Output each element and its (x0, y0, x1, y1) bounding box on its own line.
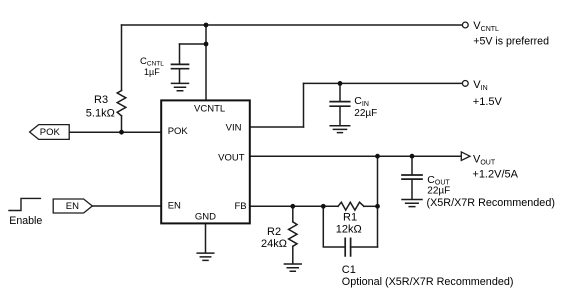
ground COUT (402, 200, 422, 207)
wire C1 right riser (377, 206, 379, 247)
node FB/C1 left junction (321, 204, 326, 209)
svg-text:GND: GND (195, 212, 216, 223)
wire COUT top lead (411, 156, 413, 174)
svg-text:5.1kΩ: 5.1kΩ (86, 107, 115, 119)
svg-text:+5V is preferred: +5V is preferred (473, 35, 549, 47)
resistor R2 (289, 222, 297, 247)
terminal VIN circle (462, 81, 468, 87)
svg-text:+1.5V: +1.5V (473, 96, 503, 108)
wire VIN pin to riser (250, 126, 304, 128)
svg-text:EN: EN (66, 201, 79, 212)
wire R2 top lead (292, 206, 294, 222)
svg-text:POK: POK (40, 127, 61, 138)
svg-text:R3: R3 (94, 94, 108, 106)
svg-text:CIN: CIN (354, 95, 369, 108)
ground R2 (284, 264, 301, 271)
ground CCNTL (172, 83, 189, 90)
node VOUT/COUT junction (410, 154, 415, 159)
node R3/POK junction (119, 130, 124, 135)
wire VIN riser (303, 83, 305, 127)
terminal VCNTL circle (462, 22, 468, 28)
wire CCNTL top lead (179, 44, 181, 64)
flag EN (53, 199, 92, 213)
wire VOUT-FB riser (377, 156, 379, 206)
wire VIN rail (304, 82, 463, 84)
node FB/R2 junction (290, 204, 295, 209)
capacitor C1 (345, 238, 350, 256)
wire POK row (69, 131, 161, 133)
wire FB row (250, 205, 338, 207)
svg-text:VOUT: VOUT (218, 152, 245, 163)
svg-text:+1.2V/5A: +1.2V/5A (472, 168, 518, 180)
capacitor CCNTL (172, 64, 189, 68)
wire C1 bottom left (323, 206, 345, 247)
svg-text:EN: EN (168, 200, 181, 211)
svg-text:R2: R2 (267, 226, 281, 238)
node FB/R1 right junction (375, 204, 380, 209)
svg-text:Optional (X5R/X7R Recommended): Optional (X5R/X7R Recommended) (342, 276, 514, 288)
resistor R3 (117, 91, 126, 116)
ground GND pin (197, 253, 214, 260)
wire top VCNTL rail (122, 24, 463, 26)
capacitor CIN (330, 102, 350, 107)
wire VOUT rail (250, 155, 461, 157)
signal Enable step waveform (9, 198, 40, 210)
svg-text:22µF: 22µF (427, 186, 450, 197)
svg-text:CCNTL: CCNTL (140, 56, 164, 68)
wire CIN top lead (339, 83, 341, 101)
wire R3 bottom (121, 116, 123, 132)
svg-text:1µF: 1µF (144, 67, 160, 77)
flag POK (30, 125, 70, 140)
node VCNTL rail / pin drop junction (204, 23, 209, 28)
svg-text:22µF: 22µF (354, 108, 377, 119)
svg-text:(X5R/X7R Recommended): (X5R/X7R Recommended) (427, 197, 555, 209)
wire VCNTL pin drop (205, 25, 207, 101)
wire C1 bottom right (351, 246, 378, 248)
wire R2 bottom lead (292, 246, 294, 263)
svg-text:24kΩ: 24kΩ (261, 238, 287, 250)
wire GND pin lead (205, 224, 207, 253)
svg-text:VCNTL: VCNTL (194, 103, 225, 114)
svg-text:VOUT: VOUT (473, 154, 496, 167)
svg-text:C1: C1 (342, 264, 356, 276)
ground CIN (330, 126, 350, 133)
svg-text:POK: POK (168, 126, 189, 137)
wire COUT bottom lead (411, 180, 413, 199)
svg-text:VIN: VIN (473, 79, 487, 92)
terminal VOUT arrow (461, 152, 470, 161)
svg-text:FB: FB (234, 201, 246, 212)
resistor R1 (338, 202, 364, 210)
wire EN row (92, 205, 161, 207)
wire CCNTL branch horizontal (180, 43, 207, 45)
svg-text:R1: R1 (343, 211, 357, 223)
wire CIN bottom lead (339, 107, 341, 125)
svg-text:VIN: VIN (226, 122, 242, 133)
svg-text:12kΩ: 12kΩ (336, 224, 362, 236)
node VOUT/R1 riser junction (375, 154, 380, 159)
svg-text:VCNTL: VCNTL (473, 20, 499, 33)
wire R3 top drop (121, 25, 123, 91)
node CIN junction (338, 81, 343, 86)
node CCNTL branch junction (204, 42, 209, 47)
IC U1 TPS54A20 block (161, 100, 250, 223)
svg-text:Enable: Enable (9, 215, 42, 227)
wire CCNTL bottom lead (179, 70, 181, 83)
wire R1 right (364, 205, 378, 207)
capacitor COUT (402, 175, 422, 179)
